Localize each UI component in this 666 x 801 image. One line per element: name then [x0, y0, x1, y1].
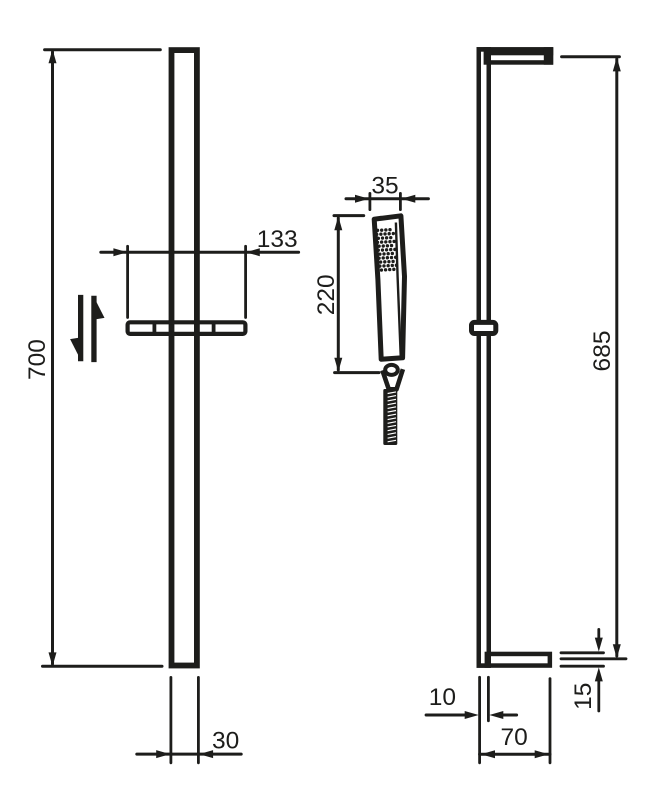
wall bracket bottom arm side view	[479, 654, 550, 666]
dimension 220 bottom arrow	[334, 358, 342, 372]
dimension 10 left line	[426, 714, 466, 717]
dimension 15 upper arrow	[595, 638, 603, 652]
dimension 15 lower extension line	[561, 665, 604, 668]
svg-text:685: 685	[589, 331, 616, 372]
dimension 220 top arrow	[334, 216, 342, 230]
dimension 10 right line	[503, 714, 517, 717]
dimension 15 upper extension line	[561, 651, 604, 654]
dimension 685 top arrow	[613, 57, 621, 71]
hand shower spray nozzle dots	[375, 228, 399, 272]
dimension 35 left tick	[368, 193, 371, 209]
dimension 10 right arrow	[489, 711, 503, 719]
svg-text:700: 700	[24, 339, 51, 380]
wall bracket top arm thick top edge	[477, 47, 554, 55]
wall bracket top arm right cap	[544, 47, 553, 64]
hand shower hose connector funnel	[382, 369, 403, 389]
svg-text:35: 35	[371, 172, 398, 199]
dimension 133 left extension line	[126, 246, 129, 317]
rail side view	[479, 49, 489, 665]
dimension 30 right extension line	[197, 677, 200, 762]
rail side view bottom joint patch	[485, 652, 491, 668]
slider bracket right divider	[212, 322, 216, 334]
hand shower face edge line	[396, 223, 401, 356]
dimension 70 right arrow	[535, 750, 549, 758]
dimension 35 line	[346, 197, 428, 200]
dimension 220 bottom extension line	[335, 371, 379, 374]
svg-text:10: 10	[429, 684, 456, 711]
dimension 133 right arrow	[246, 248, 260, 256]
rail side view top joint patch	[484, 47, 491, 64]
dimension 35 right arrow	[401, 195, 415, 203]
dimension 30 left arrow	[156, 750, 170, 758]
dimension 133 line	[101, 251, 299, 254]
dimension 685 top extension line	[562, 55, 620, 58]
dimension 15 lower arrow	[595, 667, 603, 681]
rail front view	[172, 50, 197, 665]
dimension 15 lower arrow line	[597, 681, 600, 711]
slider bracket front view	[128, 322, 246, 334]
dimension 70 line	[480, 753, 550, 756]
dimension 220 top extension line	[334, 214, 364, 217]
svg-text:30: 30	[212, 728, 239, 755]
svg-text:133: 133	[257, 226, 298, 253]
dimension 700 line	[51, 52, 54, 664]
dimension 133 right extension line	[244, 246, 247, 317]
slider bracket left divider	[152, 322, 156, 334]
dimension 30 right arrow	[199, 750, 213, 758]
dimension 10 right extension line	[487, 677, 490, 720]
dimension 133 left arrow	[113, 248, 127, 256]
dimension 70 left arrow	[481, 750, 495, 758]
svg-text:70: 70	[500, 724, 527, 751]
dimension 35 right tick	[399, 193, 402, 209]
hand shower hose	[383, 389, 397, 445]
dimension 685 line	[615, 59, 618, 656]
dimension 10 left arrow	[465, 711, 479, 719]
slider block side view	[472, 322, 496, 333]
dimension 700 bottom extension line	[43, 665, 163, 668]
dimension 70 right extension line	[549, 679, 552, 763]
slide direction symbol right arrow	[91, 296, 96, 362]
dimension 30 line	[137, 753, 241, 756]
dimension 700 bottom arrow	[49, 652, 57, 666]
wall bracket top arm side view	[479, 49, 551, 62]
svg-text:220: 220	[313, 274, 340, 315]
slide direction symbol left arrow	[78, 295, 83, 361]
dimension 685 bottom arrow	[613, 644, 621, 658]
dimension 220 line	[337, 218, 340, 370]
dimension 15 upper arrow line	[597, 629, 600, 639]
dimension 15 middle extension line	[561, 657, 626, 660]
dimension 700 top extension line	[45, 48, 161, 51]
hand shower ball joint	[385, 365, 398, 375]
dimension 10 left extension line	[478, 677, 481, 763]
dimension 35 left arrow	[355, 195, 369, 203]
dimension 700 top arrow	[49, 49, 57, 63]
dimension 30 left extension line	[169, 677, 172, 762]
hand shower body outline	[374, 216, 404, 359]
svg-text:15: 15	[570, 683, 597, 710]
